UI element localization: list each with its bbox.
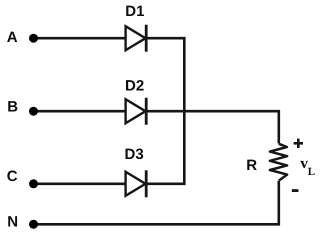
diode D3 symbol xyxy=(126,170,147,197)
wire phase B horizontal xyxy=(34,110,126,113)
wire D1 cathode to bus, vertical bus, and D3 cathode tail xyxy=(146,38,184,184)
node A terminal dot xyxy=(29,34,38,43)
svg-text:N: N xyxy=(7,214,18,231)
node C terminal dot xyxy=(29,179,38,188)
svg-text:R: R xyxy=(246,157,257,174)
node B terminal dot xyxy=(29,107,38,116)
node N terminal dot xyxy=(29,220,38,229)
plus sign of vL polarity xyxy=(294,139,303,148)
minus sign of vL polarity xyxy=(292,189,299,192)
svg-text:D1: D1 xyxy=(125,3,144,20)
diode D2 symbol xyxy=(126,98,147,125)
svg-text:C: C xyxy=(7,168,18,185)
svg-text:D2: D2 xyxy=(125,78,144,95)
diode D1 symbol xyxy=(126,25,147,52)
wire D2 cathode to right vertical down to resistor top xyxy=(146,111,279,143)
svg-text:B: B xyxy=(7,99,18,116)
svg-text:A: A xyxy=(7,29,18,46)
wire phase C horizontal xyxy=(34,183,126,186)
wire phase A horizontal xyxy=(34,37,126,40)
resistor R zigzag xyxy=(270,144,287,181)
wire resistor bottom lead down and neutral N back to terminal xyxy=(34,181,279,225)
svg-text:L: L xyxy=(308,166,315,178)
svg-text:D3: D3 xyxy=(125,146,144,163)
